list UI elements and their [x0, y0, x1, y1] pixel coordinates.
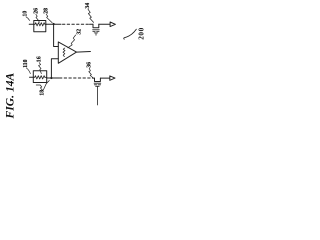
label 110 leader — [26, 68, 30, 74]
output arrow bottom — [110, 76, 115, 80]
svg-text:32: 32 — [76, 29, 82, 35]
svg-text:16: 16 — [37, 56, 43, 62]
label 18 leader — [36, 81, 49, 91]
resistor R1 zigzag — [34, 23, 47, 26]
svg-text:110: 110 — [23, 59, 29, 67]
wire from R1 box to junction A — [46, 23, 61, 25]
label 36 leader — [89, 68, 93, 77]
output arrow top — [110, 22, 115, 27]
label 10 leader — [26, 17, 30, 21]
op-amp U1 triangle — [58, 42, 76, 63]
label 16 leader — [39, 63, 42, 74]
resistor R2 zigzag — [33, 76, 47, 79]
transistor Q1 gate bar — [93, 29, 100, 31]
resistor box R1 — [34, 21, 46, 32]
op-amp output wire — [77, 51, 91, 54]
svg-text:18: 18 — [39, 90, 45, 96]
label 26 leader — [36, 14, 40, 22]
wire from R2 box to junction B — [47, 77, 59, 79]
transistor Q1 channel dip — [93, 24, 99, 27]
transistor Q2 gate bar — [94, 82, 101, 84]
transistor Q2 gate lead down — [96, 86, 98, 105]
label 32 leader — [68, 35, 76, 48]
wire Q2 to output arrow — [100, 77, 109, 79]
wire Q1 to output arrow — [99, 23, 110, 25]
op-amp U1 inner mark — [63, 48, 65, 57]
svg-text:10: 10 — [23, 11, 29, 17]
svg-text:200: 200 — [137, 27, 145, 40]
wire solid into transistor Q2 — [93, 77, 95, 79]
node A junction dot — [53, 23, 55, 25]
node B junction dot — [50, 77, 52, 79]
resistor box R2 — [33, 71, 46, 83]
transistor Q2 channel dip — [95, 78, 101, 81]
svg-text:28: 28 — [44, 8, 50, 14]
wire solid into transistor Q1 — [90, 23, 94, 25]
label 28 leader — [46, 14, 52, 23]
transistor Q2 segmented bar — [94, 84, 100, 86]
transistor Q1 segmented bar — [93, 30, 99, 32]
wire input stub to R2 box — [30, 76, 34, 78]
wire dashed top net — [63, 23, 90, 25]
wire dashed bottom net — [60, 77, 94, 79]
wire op-amp top input — [54, 24, 59, 47]
svg-text:34: 34 — [85, 3, 91, 9]
transistor Q1 gate stub — [95, 33, 97, 35]
wire op-amp bottom input — [51, 59, 58, 78]
svg-text:26: 26 — [33, 8, 39, 14]
transistor Q1 lower bar — [94, 32, 98, 34]
svg-text:36: 36 — [87, 62, 93, 68]
label 200 swoosh leader — [124, 29, 137, 39]
svg-text:FIG. 14A: FIG. 14A — [5, 72, 17, 119]
transistor Q2 lower bar — [96, 85, 100, 87]
wire input stub to R1 box — [29, 23, 34, 25]
label 34 leader — [88, 9, 94, 22]
